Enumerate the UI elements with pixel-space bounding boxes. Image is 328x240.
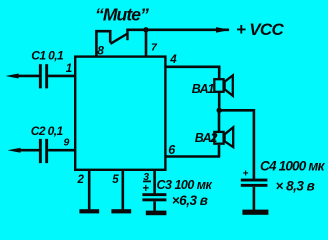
switch SA1 lever <box>110 34 127 44</box>
svg-text:+: + <box>142 183 149 195</box>
loudspeaker BA1 <box>214 75 233 95</box>
svg-text:C3 100 мк: C3 100 мк <box>157 178 213 192</box>
svg-text:4: 4 <box>169 54 177 66</box>
wire pin6 <box>165 155 220 158</box>
wire C1 to pin1 <box>48 75 75 78</box>
ground C4 <box>242 210 268 215</box>
wire C4 to ground <box>253 187 256 210</box>
loudspeaker BA2 <box>214 127 233 147</box>
svg-text:C4 1000 мк: C4 1000 мк <box>260 159 326 174</box>
svg-text:5: 5 <box>112 174 119 186</box>
ground C3 <box>146 211 167 216</box>
ground pin5 <box>111 209 131 213</box>
ground pin2 <box>79 209 99 213</box>
wire input 9 left segment <box>20 149 39 152</box>
svg-text:× 8,3 в: × 8,3 в <box>276 178 315 193</box>
svg-text:C2 0,1: C2 0,1 <box>31 124 64 138</box>
wire pin7 riser <box>145 30 148 57</box>
wire pin5 <box>122 170 125 210</box>
wire node to BA2 <box>218 110 221 132</box>
svg-text:“Mute”: “Mute” <box>95 5 149 25</box>
svg-text:+ VCC: + VCC <box>236 20 284 39</box>
wire node to C4 <box>219 110 254 179</box>
switch SA1 contact tick <box>126 29 128 40</box>
svg-text:7: 7 <box>151 42 158 54</box>
arrowhead +VCC <box>216 27 230 33</box>
wire pin8 riser <box>96 31 110 56</box>
wire pin4 to BA1 <box>165 67 219 79</box>
svg-text:6: 6 <box>168 143 176 157</box>
op-amp U1 body <box>75 57 165 170</box>
svg-text:2: 2 <box>77 174 85 186</box>
capacitor C2 plates <box>39 139 48 163</box>
wire C2 to pin9 <box>48 149 75 152</box>
capacitor C1 plates <box>39 64 48 88</box>
wire input 1 left segment <box>18 75 39 78</box>
arrowhead input 1 <box>6 74 19 79</box>
node junction at pin7 <box>143 27 148 32</box>
svg-text:BA1: BA1 <box>192 82 215 96</box>
underline pin 3 <box>143 180 151 182</box>
wire +VCC rail <box>126 28 229 31</box>
wire BA2 to pin6 <box>218 145 221 157</box>
capacitor C3 plates <box>142 193 166 201</box>
node junction speakers midpoint <box>217 108 222 113</box>
svg-text:8: 8 <box>97 43 104 57</box>
wire C3 to ground <box>153 201 156 211</box>
svg-text:9: 9 <box>64 137 70 149</box>
svg-text:×6,3 в: ×6,3 в <box>172 193 208 208</box>
arrowhead input 9 <box>8 148 21 153</box>
svg-text:+: + <box>243 169 249 180</box>
svg-text:C1 0,1: C1 0,1 <box>31 49 64 63</box>
wire BA1 to node <box>218 92 221 111</box>
capacitor C4 plates <box>241 179 268 187</box>
wire pin3 <box>153 170 156 194</box>
wire pin2 <box>88 170 91 210</box>
svg-text:1: 1 <box>66 63 72 75</box>
svg-text:BA2: BA2 <box>195 131 218 145</box>
